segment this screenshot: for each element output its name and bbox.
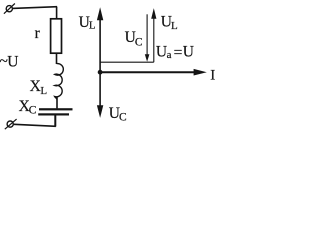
svg-text:C: C <box>119 112 127 124</box>
wire resistor to coil <box>56 53 58 64</box>
wire coil to capacitor <box>56 97 58 109</box>
small UL up arrow <box>153 18 155 62</box>
svg-text:C: C <box>135 36 143 48</box>
svg-text:U: U <box>156 43 167 60</box>
arrowhead UC big down <box>97 105 103 118</box>
wire bottom <box>14 124 56 126</box>
svg-text:C: C <box>29 105 37 117</box>
small UC down arrow <box>146 14 148 55</box>
svg-text:a: a <box>167 49 172 61</box>
arrowhead UL big up <box>97 7 103 20</box>
arrowhead I <box>194 69 207 76</box>
axis I <box>100 71 195 73</box>
origin dot <box>98 70 103 75</box>
svg-text:L: L <box>89 20 96 32</box>
baseline small phasors <box>100 61 154 63</box>
svg-text:U: U <box>183 43 194 60</box>
svg-text:L: L <box>171 20 178 32</box>
svg-text:X: X <box>30 78 41 95</box>
svg-text:I: I <box>210 68 215 84</box>
svg-text:r: r <box>35 25 41 42</box>
wire to resistor <box>56 7 58 20</box>
svg-text:=: = <box>174 44 183 61</box>
svg-text:L: L <box>40 85 47 97</box>
wire capacitor to bottom <box>54 115 56 126</box>
wire top <box>12 7 57 9</box>
terminal top-left <box>4 4 15 14</box>
svg-text:U: U <box>7 54 18 71</box>
phasor main vertical line <box>99 17 101 107</box>
capacitor XC plates <box>39 108 73 110</box>
terminal bottom-left <box>5 119 17 129</box>
resistor r <box>51 19 62 53</box>
inductor XL coil <box>55 64 64 100</box>
